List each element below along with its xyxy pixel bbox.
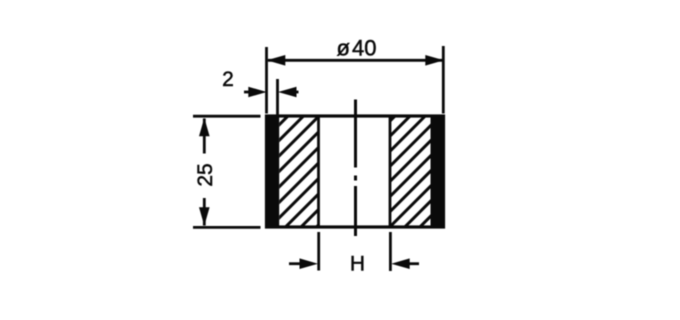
dimension H: right arrowhead (points left) [391, 258, 410, 269]
dimension 2: right arrowhead (points left) [278, 87, 297, 98]
part body outline [267, 116, 444, 227]
dimension 2: left arrowhead (points right) [248, 87, 266, 98]
right hatched section [385, 66, 445, 262]
dimension ø40: right arrowhead [425, 55, 444, 66]
centerline (dash-dot) [354, 100, 357, 237]
dimension H: right tail line [406, 262, 419, 265]
svg-text:H: H [350, 252, 365, 275]
dimension 25: top extension line [193, 115, 261, 118]
svg-text:25: 25 [194, 163, 217, 186]
dimension 2: inner extension line [276, 79, 279, 115]
dimension 25: bottom extension line [193, 226, 261, 229]
left hatched section [274, 70, 334, 270]
dimension H: left tail line [289, 262, 303, 265]
bore left edge [317, 115, 320, 229]
bore right edge [389, 115, 392, 229]
dimension H: right extension line [389, 232, 392, 271]
dimension 25: top arrowhead (points up) [199, 118, 210, 137]
dimension ø40: left arrowhead [267, 55, 286, 66]
svg-text:2: 2 [222, 68, 234, 91]
svg-text:ø40: ø40 [337, 36, 377, 61]
dimension H: left extension line [317, 232, 320, 271]
dimension ø40: right extension line [442, 46, 445, 114]
left abrasive rim (solid black strip) [265, 115, 279, 229]
dimension ø40: left extension line [265, 47, 268, 114]
dimension 25: upper dimension line segment [203, 119, 206, 154]
dimension 2: left tail line [244, 91, 252, 94]
dimension H: left arrowhead (points right) [300, 258, 319, 269]
right abrasive rim (solid black strip) [431, 115, 446, 229]
dimension ø40: dimension line [268, 59, 443, 62]
dimension 25: lower dimension line segment [203, 198, 206, 226]
dimension 25: bottom arrowhead (points down) [199, 207, 210, 226]
dimension 2: right tail line [294, 91, 299, 94]
